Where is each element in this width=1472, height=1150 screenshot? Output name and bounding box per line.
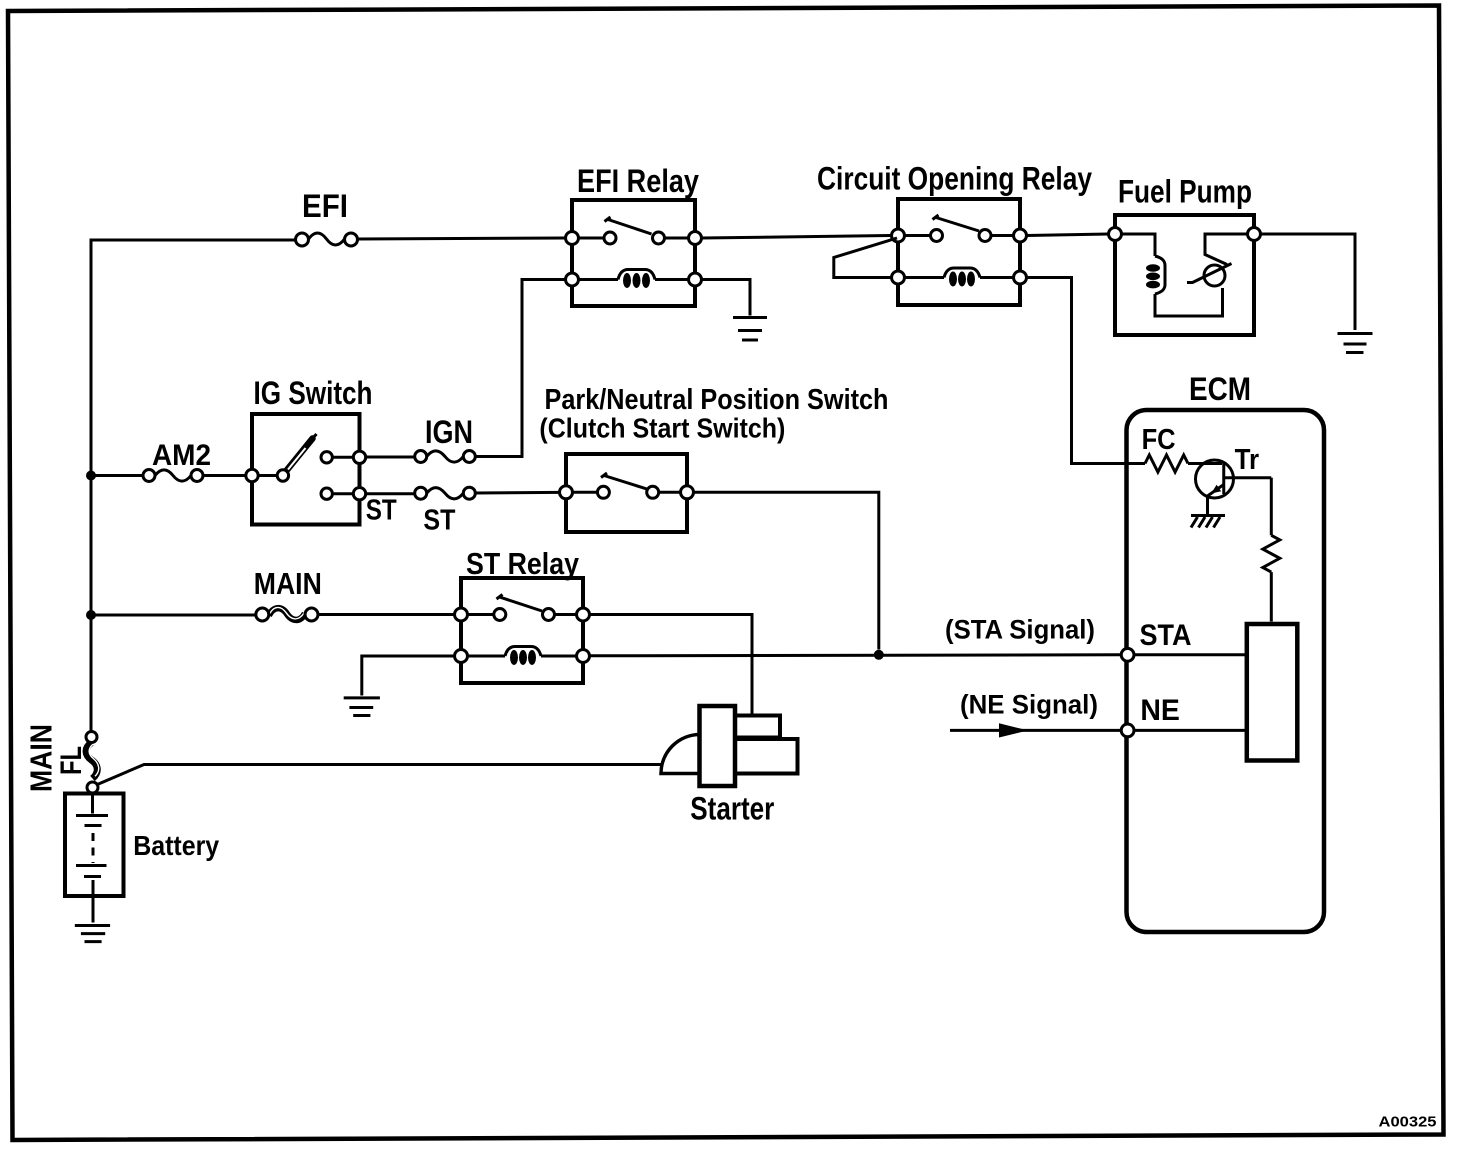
battery [65, 793, 124, 923]
fusible link MAIN [256, 607, 318, 621]
svg-text:A00325: A00325 [1379, 1114, 1437, 1131]
wire EFI relay to circuit opening relay [702, 236, 892, 239]
wire IGN [366, 456, 415, 459]
relay ST Relay [455, 578, 590, 683]
wire EFI fuse feed [90, 239, 296, 242]
svg-text:(STA Signal): (STA Signal) [945, 615, 1095, 645]
switch Park/Neutral Position Switch [560, 454, 694, 532]
starter [661, 706, 798, 786]
junction node AM2 feed [86, 471, 96, 481]
transistor Tr [1196, 460, 1272, 498]
svg-text:ECM: ECM [1189, 371, 1251, 407]
svg-text:IG Switch: IG Switch [254, 375, 373, 411]
fuel pump [1109, 215, 1261, 335]
svg-text:ST: ST [366, 495, 397, 527]
wire circuit opening relay to FC [1027, 278, 1146, 464]
pointer arrow to circuit opening relay [834, 238, 897, 278]
wire MAIN fuse to ST relay [318, 613, 455, 616]
relay Circuit Opening Relay [892, 199, 1027, 305]
svg-text:AM2: AM2 [152, 439, 211, 472]
svg-text:Tr: Tr [1235, 444, 1260, 476]
wire STA signal [590, 655, 1122, 656]
svg-text:ST: ST [423, 505, 455, 537]
junction node STA [874, 650, 884, 660]
ground ST relay coil [344, 656, 455, 716]
wire ST fuse to park/neutral switch [475, 491, 559, 495]
svg-text:Starter: Starter [690, 790, 774, 826]
svg-text:Park/Neutral Position Switch: Park/Neutral Position Switch [545, 384, 889, 416]
svg-text:ST Relay: ST Relay [466, 546, 580, 581]
svg-text:FC: FC [1142, 424, 1176, 456]
wire fuel pump to ground [1261, 234, 1356, 330]
svg-text:Battery: Battery [133, 830, 219, 861]
wire junction to MAIN fuse [91, 614, 256, 617]
fuse EFI [296, 233, 358, 246]
svg-text:NE: NE [1140, 694, 1180, 727]
junction node MAIN feed [86, 610, 96, 620]
wire battery positive bus [90, 240, 93, 732]
svg-text:EFI Relay: EFI Relay [577, 163, 699, 199]
wire battery to starter [97, 765, 663, 785]
fusible link MAIN FL [86, 732, 99, 794]
wire circuit opening relay to fuel pump [1027, 234, 1109, 236]
resistor pull-down [1263, 535, 1280, 572]
svg-text:(Clutch Start Switch): (Clutch Start Switch) [539, 413, 785, 444]
ECM [1127, 410, 1325, 932]
svg-text:FL: FL [55, 746, 88, 775]
wire ST relay to starter solenoid [590, 615, 753, 716]
relay EFI Relay [566, 200, 702, 306]
svg-text:Circuit Opening Relay: Circuit Opening Relay [817, 161, 1092, 197]
fuse ST [415, 487, 476, 499]
svg-text:IGN: IGN [425, 414, 473, 450]
ground fuel pump [1338, 334, 1373, 353]
ground transistor emitter [1191, 496, 1225, 528]
pin NE [1121, 724, 1134, 737]
fuse AM2 [143, 470, 203, 482]
svg-text:EFI: EFI [302, 188, 348, 224]
svg-text:(NE Signal): (NE Signal) [960, 690, 1098, 720]
ground EFI relay coil [702, 280, 768, 341]
wire EFI fuse to EFI relay [358, 238, 566, 239]
wire park/neutral switch to STA node [694, 492, 879, 649]
wire resistor to connector [1270, 572, 1273, 621]
wire NE pin to connector [1134, 729, 1247, 732]
svg-text:MAIN: MAIN [24, 724, 59, 792]
resistor FC [1145, 455, 1188, 472]
wire AM2 fuse to IG switch [203, 474, 246, 477]
wire ST [366, 492, 415, 495]
connector block [1247, 624, 1298, 761]
svg-text:STA: STA [1140, 619, 1192, 652]
wire junction to AM2 fuse [91, 474, 143, 477]
ground battery [75, 926, 110, 942]
svg-text:MAIN: MAIN [254, 566, 322, 601]
switch IG Switch [246, 414, 366, 525]
wire FC resistor to transistor base [1188, 462, 1222, 465]
wire transistor collector to resistor [1270, 478, 1273, 536]
wire IGN fuse to EFI relay coil [475, 280, 565, 457]
pin STA [1121, 648, 1134, 661]
fuse IGN [415, 451, 476, 463]
wire NE signal arrow [950, 723, 1121, 737]
wire STA pin to connector [1134, 653, 1247, 656]
svg-text:Fuel Pump: Fuel Pump [1118, 174, 1252, 210]
